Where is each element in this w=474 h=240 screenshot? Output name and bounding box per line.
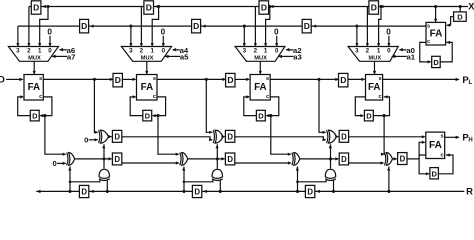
svg-text:D: D [145,112,151,121]
svg-text:MUX: MUX [368,56,381,62]
wire row B bus from D1 [122,162,179,164]
wire stage3 second-bus tap to MUX input 3 [243,26,245,46]
svg-text:2: 2 [140,48,144,55]
svg-text:0: 0 [48,48,52,55]
wire stage1 step to MUX input 1 [40,7,48,47]
xor gate XOR-A3 (row A) [327,130,328,143]
svg-text:c: c [378,94,381,100]
svg-text:s: s [441,133,444,139]
wire stage2 top-bus tap to D and MUX [140,7,142,47]
multiplexer MUX4 [348,47,398,62]
svg-text:c: c [266,94,269,100]
wire XOR-A3 output to D [337,136,339,138]
flip-flop D (R line, stage2) [203,190,207,193]
wire X-delay D output into FA5 [447,17,454,26]
node stage2 second-bus junction [129,25,132,28]
flip-flop D (X delay, stage2) [155,5,159,8]
svg-text:D: D [33,3,39,13]
svg-text:D: D [341,155,347,164]
wire XOR-B1 bottom input from R tap [69,167,71,192]
svg-text:3: 3 [355,48,359,55]
svg-text:D: D [400,155,406,164]
wire FA-PH sum to PH output [445,136,459,138]
full adder FA3 [250,75,270,101]
flip-flop D (sum delay, stage1) [110,78,114,81]
flip-flop D (second bus, stage3) [312,25,316,28]
xor gate XOR-B4 (row B) [385,153,386,166]
svg-text:1: 1 [264,48,268,55]
select input a2 [286,49,293,51]
node stage4 top-bus junction [379,5,382,8]
svg-text:FA: FA [429,140,442,151]
wire carry D output back to FA3 carry-in [244,97,257,116]
svg-text:FA: FA [254,82,267,93]
wire stage4 top-bus tap to D and MUX [366,7,368,47]
flip-flop D (carry delay, stage3) [256,110,265,121]
svg-text:D: D [193,21,199,31]
svg-text:0: 0 [274,27,279,36]
wire FA-PH carry loop [419,155,429,174]
wire row A bus from D3 [349,136,425,138]
wire MUX1 output to FA1 [33,61,35,74]
svg-text:3: 3 [129,48,133,55]
svg-text:c: c [427,39,430,45]
wire R tap branch to dome XOR (stage2) [184,179,213,182]
xor gate XOR-B3 (row B) [292,153,293,166]
xor gate dome (stage1) [99,169,109,178]
node stage1 sum tap [93,78,96,81]
wire 0 into XOR A1 [89,139,98,141]
wire stage1 sum tap down to XOR [94,79,97,132]
node stage1 tap branch [69,181,72,184]
select input a6 [60,49,67,51]
select input a3 [279,55,294,57]
node stage2 top-bus junction [157,5,160,8]
svg-text:D: D [227,155,233,164]
flip-flop D (second bus, stage1) [90,25,94,28]
wire dome output to R line (stage1) [106,180,108,192]
node stage1 top-bus junction [46,5,49,8]
flip-flop D (R line, stage1) [90,190,94,193]
svg-text:2: 2 [366,48,370,55]
xor gate dome (stage2) [212,169,222,178]
xor gate XOR-A1 (row A) [99,130,100,143]
flip-flop D (X delay at input) [454,12,467,21]
node stage4 carry tap [383,114,386,117]
svg-text:s: s [378,76,381,82]
wire shifted-X second bus [18,25,426,27]
svg-text:H: H [468,138,472,144]
node stage2 R-line tap [182,190,185,193]
node stage3 tap branch [296,181,299,184]
wire X down into FA5 [435,7,437,22]
wire 0 to MUX input 0 [276,36,278,47]
wire carry D output back to FA2 carry-in [130,97,143,116]
wire XOR-A3 lower input from below [330,144,332,159]
wire XOR-B2 bottom input from R tap [183,167,185,192]
svg-text:D: D [0,75,5,86]
wire stage3 top-bus tap to D and MUX [254,7,256,47]
wire FA1 sum to FA2 via D [43,78,113,80]
wire stage4 second-bus tap to MUX input 3 [356,26,358,46]
wire FA3 carry out loop [267,97,279,116]
full adder FA1 [24,75,43,101]
wire stage1 second-bus tap to MUX input 3 [17,26,19,46]
wire stage4 step to MUX input 1 [379,7,381,47]
wire stage3 carry tap down to XOR [271,116,291,155]
node dome output junction (stage2) [219,190,222,193]
svg-text:D: D [340,75,346,85]
wire R output arrowhead [36,190,40,193]
wire XOR-A1 lower input from below [103,144,105,159]
node stage2 tap branch [183,181,186,184]
svg-text:D: D [307,188,313,197]
flip-flop D (row A, stage3) [339,130,348,142]
wire row B bus from D2 [235,162,291,164]
flip-flop D (second bus, stage2) [202,25,206,28]
node X bus tap to X delay D [459,5,462,8]
svg-text:D: D [81,188,87,197]
svg-text:X: X [468,2,474,13]
node X bus tap to FA5 [434,5,437,8]
svg-text:1: 1 [38,48,42,55]
wire X down into D [459,7,461,13]
node dome output junction (stage3) [332,190,335,193]
svg-text:D: D [304,21,310,31]
wire row A bus from D2 [235,137,326,140]
svg-text:D: D [258,112,264,121]
svg-text:c: c [39,94,42,100]
svg-text:R: R [466,187,473,198]
svg-text:D: D [457,13,463,22]
svg-text:a7: a7 [67,52,76,61]
wire 0 to MUX input 0 [49,36,51,47]
wire stage3 step to MUX input 1 [266,7,270,47]
wire stage2 second-bus tap to MUX input 3 [130,26,132,46]
svg-text:c: c [441,153,444,159]
svg-text:s: s [39,76,42,82]
multiplexer MUX3 [235,47,285,62]
flip-flop D (carry delay, stage2) [143,110,152,121]
node stage3 R-line tap [296,190,299,193]
flip-flop D (row B, stage1) [112,153,121,165]
svg-text:D: D [432,169,438,178]
full adder FA2 [137,75,158,101]
svg-text:a3: a3 [293,52,302,61]
wire row A bus from D1 [122,137,212,140]
wire stage2 step to MUX input 1 [152,7,158,47]
svg-text:D: D [114,132,120,141]
wire carry D output back to FA1 carry-in [18,97,31,116]
wire dome output to R line (stage3) [333,180,335,192]
node stage2 carry tap [156,114,159,117]
flip-flop D (product feedback) [398,153,407,165]
wire column into dome top (stage1) [103,159,105,169]
svg-text:D: D [194,188,200,197]
flip-flop D (carry delay, stage1) [30,110,39,121]
svg-text:MUX: MUX [141,56,154,62]
flip-flop D (row A, stage2) [225,130,234,142]
wire MUX4 output to FA4 [374,61,376,74]
wire FA4 sum to PL output [383,78,459,80]
node stage3 sum tap [317,78,320,81]
node stage3 top-bus junction [268,5,271,8]
svg-text:FA: FA [141,82,154,93]
wire FA5 carry loop [420,42,431,62]
svg-text:FA: FA [368,82,381,93]
svg-text:FA: FA [28,82,41,93]
wire FA-PH carry D back in [438,155,453,174]
flip-flop D (row B, stage3) [339,153,348,165]
wire FA2 sum to FA3 via D [157,78,226,80]
wire R tap branch to dome XOR (stage1) [70,179,100,182]
wire XOR-B2 output to D [188,158,225,160]
wire 0 to MUX input 0 [162,36,164,47]
select input a4 [173,49,180,51]
wire MUX2 output to FA2 [146,61,148,74]
svg-text:D: D [433,58,439,67]
svg-text:0: 0 [84,136,88,145]
wire XOR-A2 lower input from below [216,144,218,159]
select input a7 [52,55,67,57]
wire carry D output back to FA4 carry-in [373,97,389,116]
node stage1 column junction [102,157,105,160]
svg-text:D: D [341,132,347,141]
svg-text:FA: FA [430,29,443,40]
node stage3 carry tap [269,114,272,117]
wire MUX3 output to FA3 [259,61,261,74]
xor gate dome (stage3) [325,169,335,178]
wire FA4 carry out loop (mirrored) [355,97,365,116]
svg-text:D: D [115,75,121,85]
svg-text:D: D [114,155,120,164]
full adder FA4 [366,75,383,101]
wire XOR-A1 output to D [109,136,112,138]
wire R tap branch to dome XOR (stage3) [298,179,327,182]
flip-flop D (sum delay, stage3) [335,78,339,81]
svg-text:1: 1 [150,48,154,55]
wire stage1 top-bus tap to D and MUX [28,7,30,47]
svg-text:D: D [146,3,152,13]
select input a1 [392,55,407,57]
node stage1 R-line tap [68,190,71,193]
full adder FA-PH (high product) [426,132,445,158]
node stage3 second-bus junction [243,25,246,28]
svg-text:D: D [371,3,377,13]
flip-flop D (X delay, stage4) [380,5,384,8]
flip-flop D (X delay, stage3) [270,5,274,8]
wire stage3 sum tap down to XOR [319,79,325,132]
node stage2 sum tap [205,78,208,81]
multiplexer MUX2 [121,47,171,62]
svg-text:D: D [227,75,233,85]
flip-flop D (row B, stage2) [225,153,234,165]
wire 0 to MUX input 0 [388,36,390,47]
svg-text:a1: a1 [407,52,416,61]
svg-text:3: 3 [243,48,247,55]
node stage1 carry tap [43,114,46,117]
wire FA1 carry out loop [40,97,52,116]
multiplexer MUX1 [8,47,58,62]
wire D to FA-PH second input [407,142,425,159]
svg-text:s: s [266,76,269,82]
wire FA2 carry out loop [153,97,166,116]
svg-text:0: 0 [275,48,279,55]
wire XOR-B3 output to D [300,158,338,160]
svg-text:D: D [261,3,267,13]
svg-text:0: 0 [47,27,52,36]
wire XOR-A2 output to D [223,136,224,138]
svg-text:2: 2 [254,48,258,55]
svg-text:D: D [366,112,372,121]
svg-text:0: 0 [386,27,391,36]
wire FA5 carry D back in [440,42,452,62]
svg-text:3: 3 [16,48,20,55]
svg-text:1: 1 [377,48,381,55]
node stage4 R-line tap [387,190,390,193]
xor gate XOR-A2 (row A) [213,130,214,143]
wire row B bus from D3 [349,162,384,164]
full adder FA5 (X input adder) [426,22,446,45]
wire stage1 carry tap down to XOR [45,116,65,155]
wire R result bottom bus [36,190,464,192]
svg-text:L: L [468,80,472,86]
svg-text:s: s [153,76,156,82]
flip-flop D (X delay, stage1) [42,5,46,8]
wire column into dome top (stage2) [216,159,218,169]
svg-text:D: D [227,132,233,141]
select input a5 [165,55,180,57]
svg-text:0: 0 [387,48,391,55]
flip-flop D (FA5 carry delay) [432,56,441,67]
wire stage2 carry tap down to XOR [158,116,178,155]
xor gate XOR-B2 (row B) [180,153,181,166]
xor gate XOR-B1 (row B) [67,153,68,166]
wire XOR-B3 bottom input from R tap [297,167,299,192]
wire column into dome top (stage3) [330,159,332,169]
svg-text:a5: a5 [180,52,189,61]
wire X input top bus [29,6,468,8]
svg-text:0: 0 [162,48,166,55]
svg-text:MUX: MUX [28,56,41,62]
svg-text:0: 0 [52,159,56,168]
wire XOR-B1 output to D [75,158,112,160]
wire stage2 sum tap down to XOR [206,79,212,132]
svg-text:s: s [427,24,430,30]
svg-text:0: 0 [161,27,166,36]
svg-text:MUX: MUX [254,56,267,62]
wire XOR-B4 output to D [393,158,397,160]
node stage3 column junction [329,157,332,160]
node stage4 second-bus junction [355,25,358,28]
select input a0 [400,49,407,51]
svg-text:D: D [32,112,38,121]
wire stage4 carry tap down to XOR [383,116,385,155]
flip-flop D (carry delay, stage4) [364,110,373,121]
node stage2 column junction [216,157,219,160]
flip-flop D (sum delay, stage2) [222,78,226,81]
wire 0 into XOR B1 [57,162,66,164]
wire FA3 sum to FA4 via D [270,78,338,80]
flip-flop D (row A, stage1) [112,130,121,142]
svg-text:D: D [81,21,87,31]
svg-text:c: c [153,94,156,100]
svg-text:2: 2 [27,48,31,55]
wire dome output to R line (stage2) [219,180,221,192]
flip-flop D (FA-PH carry delay) [430,168,439,179]
wire XOR-B4 bottom input from R tap [388,167,390,192]
flip-flop D (R line, stage3) [316,190,320,193]
node dome output junction (stage1) [106,190,109,193]
